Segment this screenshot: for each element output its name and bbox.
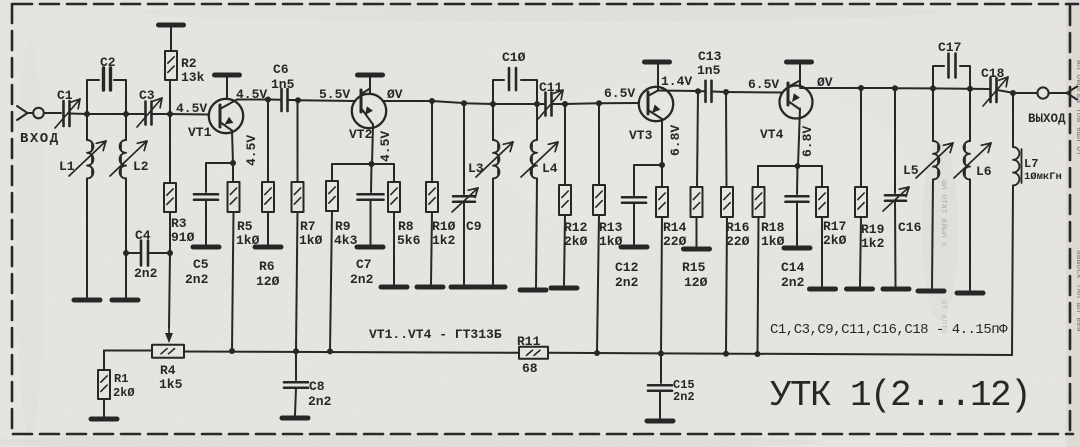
node B (L2 top) [123,111,129,117]
VT2 collector output line [383,100,431,102]
ground of C12 [621,245,647,250]
capacitor C8 [284,351,308,415]
ground of C5 [193,245,219,250]
wire node K to C11 [537,103,545,105]
wire C6 to node F [288,99,297,101]
wire input arrow to input terminal [28,112,34,114]
inductor L4 (variable) [521,104,558,287]
wire emitter node to C5 [206,163,233,192]
node bus-R9 [327,348,333,354]
wire node T to node U [895,87,932,89]
wire node E to C6 [268,99,281,101]
resistor R6 [262,100,274,245]
capacitor C14 [786,166,809,245]
node A (L1 top) [84,111,90,117]
node Q (R16 top / VT4 base) [723,89,729,95]
ground of C8 [282,416,308,421]
resistor R12 [559,104,571,285]
capacitor C2 bridge [87,68,126,112]
VT3 emitter wire [661,119,663,165]
VT1 collector output line [237,99,267,101]
resistor R2 [165,27,177,112]
wire node P to C13 [698,90,704,92]
supply bar above VT2 [358,73,383,78]
wire node W to output terminal [1013,92,1037,94]
svg-text:авыоск тнл ыл вей: авыоск тнл ыл вей [1074,250,1080,332]
ground of R19 [847,287,873,292]
wire C18 to node W [997,90,1012,93]
capacitor C9 (trimmer) [452,103,478,284]
capacitor C11 (trimmer) [538,90,563,119]
ground of R12 [551,286,577,291]
capacitor C12 [622,197,646,244]
node G (VT1 emitter) [230,160,236,166]
output antenna arrow [1067,87,1078,100]
capacitor C4 [123,241,167,266]
node bus-R18 [755,351,761,357]
node X (VT4 emitter) [795,163,801,169]
node E (R6 top) [265,97,271,103]
node R (VT3 emitter) [659,162,665,168]
capacitor C6 [282,89,288,111]
input antenna arrow [17,106,28,120]
wire R3 node to R4 wiper arrow [169,253,170,328]
transistor VT1 [209,99,243,133]
transistor VT4 [780,81,813,119]
capacitor C15 [648,354,672,419]
resistor R19 [855,88,867,286]
node I (C9 top) [461,100,467,106]
wire C13 to node Q [712,91,725,94]
resistor R13 [593,103,605,352]
supply bar above VT4 [787,60,812,65]
resistor R1 [98,351,110,417]
resistor R15 [691,91,703,246]
inductor L2 (variable) [110,114,147,297]
resistor R11 [519,347,548,359]
resistor R9 [326,164,338,351]
wire node M to node N [565,102,598,105]
node D (C4-R3 junction) [167,250,173,256]
resistor R3 [164,114,176,253]
node U (L5 top / C17 left) [930,85,936,91]
wire node N to VT3 base [599,102,639,104]
ground of L4 [520,288,546,293]
ground of L2 [112,298,138,303]
wire node U to C18 [933,87,989,90]
ground of R1 [91,417,117,422]
inductor L1 (variable) [69,114,106,297]
capacitor C10 bridge [493,68,537,102]
ground of R6 [255,245,281,250]
wire node I to node J [464,102,492,105]
node F (R7 top / VT2 base) [295,97,301,103]
node bus-R16 [723,351,729,357]
inductor L6 (variable) [954,89,991,290]
node N (R13 top) [596,100,602,106]
wire node J to node K [493,103,536,105]
ground of C16 [883,287,909,292]
node bus-R14 (C15 top) [658,351,664,357]
VT2 emitter wire [372,125,373,165]
resistor R7 [292,100,304,351]
VT3 collector output line [658,90,697,93]
supply bar above VT3 [645,60,670,65]
wire node A to node B [87,113,126,115]
resistor R5 [228,163,240,351]
right margin bleed-through noise [939,60,1080,334]
wire bus R11 to corner [548,353,1012,355]
capacitor C7 [358,164,384,244]
VT1 collector wire to supply bar [226,77,228,98]
capacitor C18 (trimmer) [983,77,1008,106]
resistor R18 [753,166,765,354]
wire bus R4 to R11 [184,352,519,353]
node W (L7 top) [1010,90,1016,96]
input terminal circle [33,108,44,119]
wire C11 to node M [552,103,564,105]
ground of R17 [810,287,836,292]
ground of L3 [479,285,505,290]
wire emitter node to C12 [634,165,662,195]
svg-text:шл отат вйыл с: шл отат вйыл с [939,180,948,247]
resistor R10 [426,101,438,284]
supply bar above VT1 [215,73,240,78]
VT2 emitter branch line [332,163,394,165]
wire terminal to C1 [44,112,61,114]
node V (L6 top / C17 right) [967,86,973,92]
wire node S to node T [861,87,894,89]
VT4 collector wire to supply bar [799,64,801,86]
node T (C16 top) [892,85,898,91]
VT2 collector wire to supply bar [369,77,371,94]
capacitor C1 (trimmer) [55,99,80,128]
wire C3 to node C [152,113,170,115]
wire node H to node I [432,101,463,103]
capacitor C16 (trimmer) [883,88,909,286]
capacitor C13 [706,81,712,102]
ground of L5 [918,289,944,294]
capacitor C17 bridge [933,54,970,88]
node bus-R7 [293,348,299,354]
node S (R19 top) [858,85,864,91]
ground of C7 [357,245,383,250]
wire bus left segment [104,350,152,352]
capacitor C5 [194,194,218,244]
inductor L3 (variable) [476,104,513,284]
VT4 collector output line [800,87,860,89]
ground of C14 [784,246,810,251]
resistor R17 [816,166,828,286]
inductor L7 [1012,93,1022,355]
output terminal circle [1037,87,1048,98]
ground of C15 [647,419,673,424]
node C (VT1 base junction) [167,111,173,117]
resistor R14 [656,165,668,354]
capacitor C3 (trimmer) [137,98,162,127]
resistor R8 [388,164,400,284]
transistor VT2 [352,89,386,129]
node O (VT2 emitter) [369,161,375,167]
wire node Q to VT4 base [726,91,781,94]
wiper arrow onto R4 [165,328,173,343]
ground of R8 [381,285,407,290]
node J (L3 top / C10 left) [490,101,496,107]
node bus-R5 [229,348,235,354]
transistor VT3 [639,87,673,121]
wire C1 to node A [70,113,87,116]
svg-text:ил оишгьа тов ешл от: ил оишгьа тов ешл от [1074,60,1080,156]
ground of C9 [451,285,477,290]
wire node C to VT1 base [170,113,209,116]
wire node B to C3 [126,113,145,115]
ground of R15 [684,247,710,252]
node bus-R13 [594,350,600,356]
node K (L4 top / C10 right) [534,101,540,107]
svg-text:от влтс: от влтс [939,300,948,334]
potentiometer R4 [152,345,184,358]
VT4 emitter branch line [758,165,822,167]
node M (R12 top) [562,101,568,107]
VT4 emitter wire [798,109,800,167]
supply bar above R2 [159,23,184,28]
ground of L1 [74,298,100,303]
ground of L6 [957,291,983,296]
node H (R10 top) [429,98,435,104]
wire output terminal to arrow [1049,92,1066,94]
VT1 emitter wire [232,131,233,164]
resistor R16 [721,92,733,354]
ground of R10 [417,285,443,290]
node P (R15 top) [695,88,701,94]
wire node F to VT2 base [298,99,355,102]
inductor L5 (variable) [916,88,953,288]
VT3 collector wire to supply bar [657,64,659,90]
